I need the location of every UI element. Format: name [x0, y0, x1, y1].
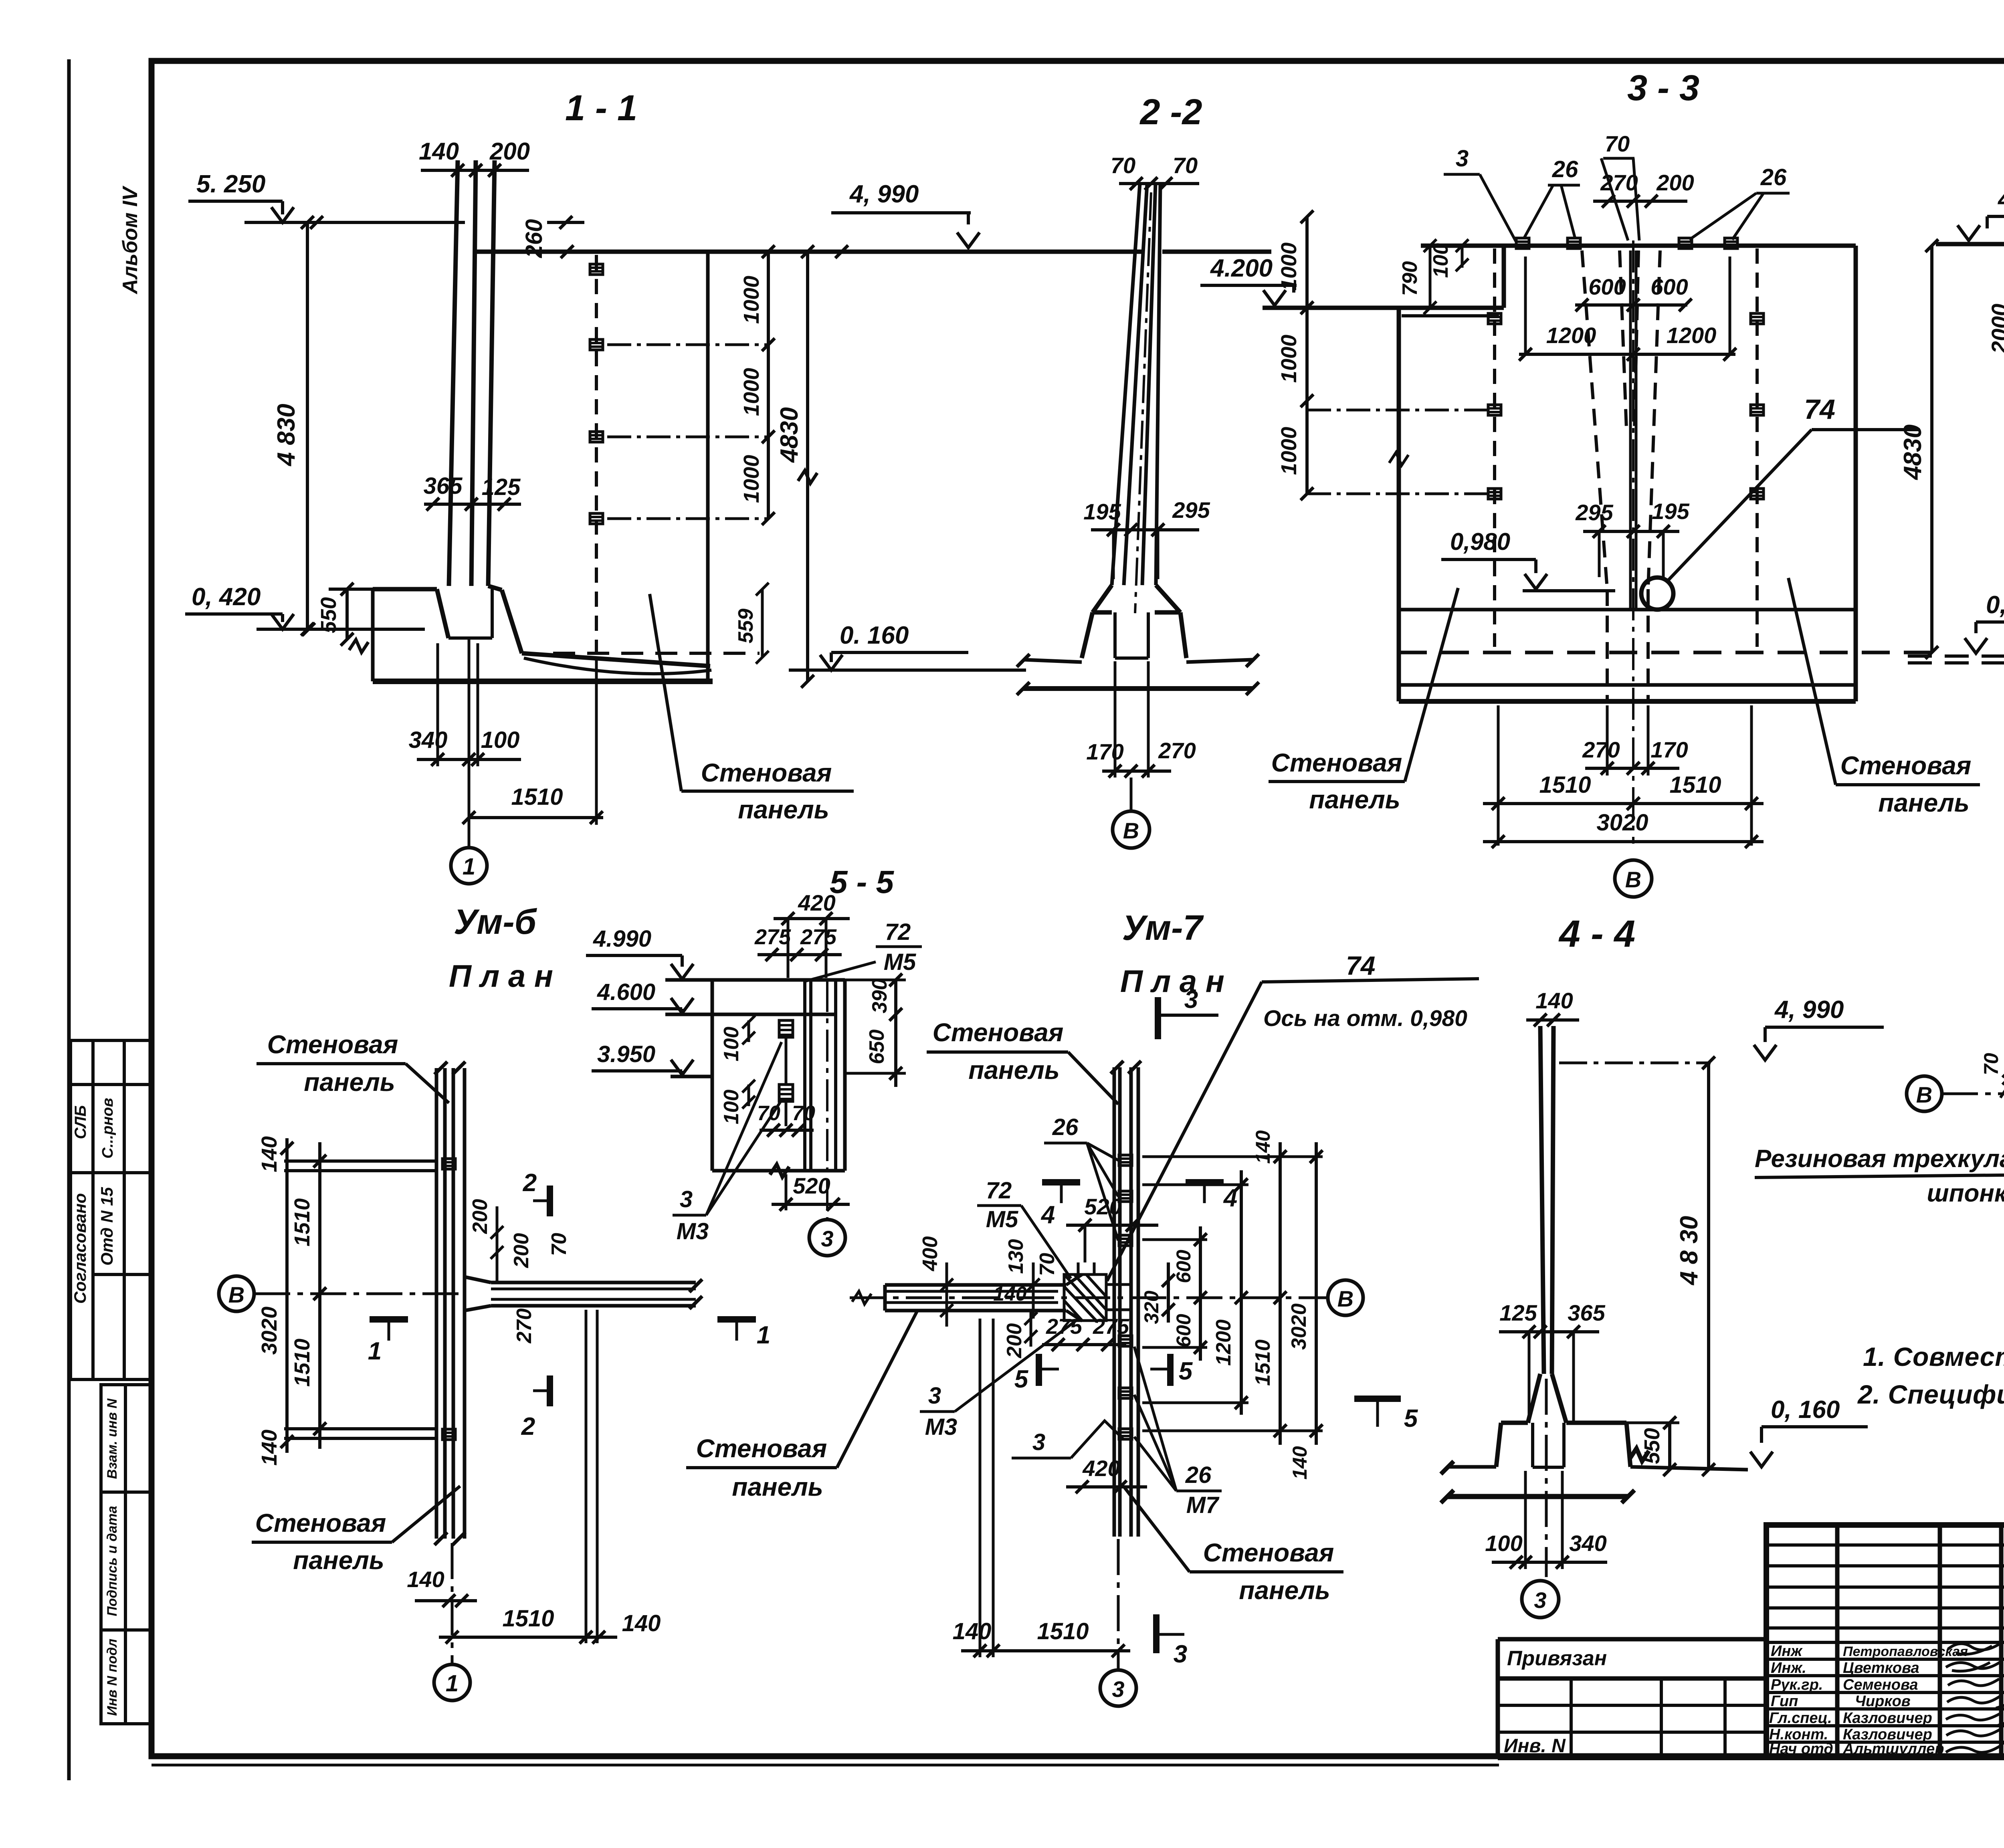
svg-text:600: 600	[1172, 1314, 1195, 1347]
section 1-1 dim 4830 right	[798, 245, 817, 688]
svg-text:2000: 2000	[1987, 304, 2004, 354]
svg-text:Рук.гр.: Рук.гр.	[1771, 1676, 1823, 1693]
svg-text:3.950: 3.950	[597, 1041, 655, 1067]
elevation 0.150	[1965, 622, 2004, 653]
Um-7 panel connector squares above	[1119, 1155, 1132, 1439]
svg-text:панель: панель	[304, 1068, 395, 1097]
svg-text:270: 270	[1600, 170, 1638, 195]
svg-text:Подпись и дата: Подпись и дата	[105, 1506, 120, 1616]
title block outer box	[1766, 1525, 2004, 1757]
svg-text:Резиновая трехкулачковая: Резиновая трехкулачковая	[1755, 1145, 2004, 1173]
4-4 dim 4830	[1702, 1056, 1715, 1476]
Um-7 label Стеновая панель bottom right	[1125, 1488, 1343, 1572]
section 3-3 right panel dashed	[1751, 248, 1764, 647]
Um-6 dim line 3020/140	[281, 1138, 293, 1453]
section 1-1 dim 260	[547, 216, 586, 258]
svg-text:390: 390	[868, 979, 891, 1014]
svg-text:1200: 1200	[1546, 323, 1596, 348]
svg-text:Альбом IV: Альбом IV	[119, 185, 142, 295]
svg-text:панель: панель	[1239, 1576, 1330, 1605]
svg-text:170: 170	[1650, 737, 1688, 762]
svg-text:В: В	[1625, 867, 1641, 892]
svg-text:3: 3	[1456, 145, 1469, 172]
svg-text:0. 160: 0. 160	[840, 622, 909, 649]
Um-6 label Стеновая панель bottom	[252, 1486, 460, 1542]
svg-text:74: 74	[1346, 951, 1375, 980]
Um-6 wall panel vertical (plan)	[434, 1062, 465, 1545]
svg-text:5: 5	[1179, 1357, 1193, 1385]
svg-text:130: 130	[1004, 1239, 1028, 1274]
svg-text:600: 600	[1588, 274, 1626, 299]
svg-text:140: 140	[953, 1618, 992, 1644]
album label rotated	[119, 185, 142, 295]
svg-text:70: 70	[1980, 1053, 2002, 1075]
svg-text:0, 150: 0, 150	[1986, 591, 2004, 619]
svg-text:4830: 4830	[1899, 424, 1927, 481]
svg-text:3: 3	[821, 1226, 833, 1251]
svg-text:1: 1	[446, 1670, 459, 1697]
svg-text:Нач отд: Нач отд	[1769, 1741, 1833, 1757]
section 3-3 left dim column 1000s	[1301, 210, 1493, 500]
Um-6 panel connector squares	[442, 1159, 455, 1169]
svg-text:1510: 1510	[290, 1198, 314, 1246]
svg-text:Инж: Инж	[1771, 1643, 1803, 1660]
svg-text:1510: 1510	[1669, 772, 1721, 798]
svg-text:5 - 5: 5 - 5	[830, 864, 895, 900]
stamp box group 1 (Согласовано)	[71, 1040, 152, 1379]
svg-text:3: 3	[1112, 1676, 1124, 1702]
svg-text:Стеновая: Стеновая	[933, 1018, 1064, 1047]
section 1-1 label Стеновая панель	[650, 594, 854, 791]
svg-text:В: В	[228, 1282, 244, 1307]
title block signature rows	[1766, 1641, 2004, 1644]
svg-text:100: 100	[1485, 1531, 1522, 1556]
svg-text:М3: М3	[677, 1218, 709, 1244]
svg-text:Инв N подл: Инв N подл	[105, 1639, 120, 1716]
svg-text:125: 125	[482, 474, 521, 500]
svg-text:170: 170	[1086, 739, 1123, 764]
Привязан strip	[1498, 1639, 1766, 1757]
svg-text:550: 550	[317, 597, 341, 633]
svg-text:559: 559	[734, 609, 758, 644]
section 3-3 left panel dashed	[1488, 248, 1501, 647]
5-5 elevation 4.600	[592, 998, 693, 1013]
Um-7 label Стеновая панель top	[927, 1052, 1118, 1104]
svg-text:275: 275	[800, 925, 837, 949]
svg-text:70: 70	[547, 1233, 571, 1256]
svg-text:195: 195	[1083, 499, 1121, 524]
5-5 bottom dim 520	[772, 1174, 850, 1211]
section 3-3 node circle 74	[1641, 578, 1673, 610]
label Стеновая панель (right of 3-3)	[1788, 578, 1980, 785]
svg-text:26: 26	[1760, 164, 1787, 190]
label Стеновая панель (below tee, points to Um-7 element)	[686, 1310, 918, 1468]
svg-text:140: 140	[1535, 988, 1573, 1013]
5-5 right dims 390/650	[845, 973, 906, 1087]
svg-text:1200: 1200	[1667, 323, 1717, 348]
svg-text:295: 295	[1172, 497, 1210, 523]
Um-7 junction hatched block	[1064, 1262, 1131, 1321]
svg-text:140: 140	[407, 1567, 444, 1592]
svg-text:140: 140	[993, 1282, 1027, 1305]
stamp box group 2 (Инв N)	[101, 1385, 152, 1724]
Um-6 label Стеновая панель top	[257, 1064, 449, 1103]
Um-6 section marks 2	[533, 1186, 550, 1216]
svg-text:420: 420	[1082, 1456, 1120, 1481]
Um-7 section marks 5	[1039, 1354, 1059, 1386]
svg-text:275: 275	[1046, 1315, 1083, 1339]
svg-text:1. Совместно с данным см. л: 1. Совместно с данным см. л.л. КЖ-16, 32…	[1863, 1342, 2004, 1371]
svg-text:1510: 1510	[1037, 1618, 1089, 1644]
svg-text:295: 295	[1575, 500, 1613, 525]
svg-text:2: 2	[523, 1169, 537, 1197]
svg-text:600: 600	[1172, 1250, 1195, 1283]
svg-text:Стеновая: Стеновая	[255, 1509, 386, 1537]
section 3-3 dim 600/600	[1575, 299, 1692, 311]
svg-text:520: 520	[793, 1173, 830, 1198]
section 3-3 dim 295/195	[1583, 525, 1679, 577]
svg-text:В: В	[1916, 1082, 1932, 1107]
5-5 elevation 4.990	[586, 955, 693, 979]
svg-text:панель: панель	[1878, 788, 1970, 817]
svg-text:5: 5	[1014, 1365, 1029, 1393]
svg-text:панель: панель	[732, 1472, 823, 1501]
title block signature labels	[1769, 1643, 1968, 1757]
svg-text:Стеновая: Стеновая	[1271, 748, 1402, 777]
svg-text:74: 74	[1804, 394, 1835, 425]
Um-7 section mark 3 bottom	[1156, 1614, 1184, 1653]
title block top narrow rows	[1766, 1543, 2004, 1547]
4-4 dim 100/340	[1492, 1471, 1607, 1569]
svg-text:3020: 3020	[257, 1307, 281, 1355]
4-4 elevation 4.990	[1754, 1027, 1884, 1060]
svg-text:140: 140	[1252, 1130, 1274, 1164]
svg-text:140: 140	[257, 1430, 281, 1466]
section 1-1 top dim 140/200	[421, 164, 529, 177]
svg-text:5. 250: 5. 250	[196, 170, 265, 198]
svg-text:1: 1	[463, 854, 475, 880]
svg-text:3: 3	[680, 1186, 693, 1212]
svg-text:340: 340	[1569, 1531, 1606, 1556]
svg-text:270: 270	[1158, 738, 1196, 763]
elevation 4.990 (top of 2-2)	[831, 213, 980, 258]
Um-7 bottom dim 140/1510	[961, 1319, 1130, 1657]
section 2-2 footing slab	[1017, 654, 1259, 695]
svg-text:270: 270	[1582, 737, 1620, 762]
section 3-3 right dim 4830	[1925, 239, 1938, 659]
svg-text:275: 275	[1093, 1315, 1129, 1339]
svg-text:4.990: 4.990	[1997, 186, 2004, 213]
svg-text:1510: 1510	[1251, 1339, 1275, 1386]
elevation 4.200	[1200, 285, 1297, 305]
svg-text:М5: М5	[884, 949, 916, 975]
svg-text:100: 100	[481, 727, 520, 753]
svg-text:М5: М5	[986, 1206, 1018, 1232]
svg-text:1000: 1000	[739, 455, 764, 503]
section 3-3 top connector squares	[1516, 238, 1737, 248]
svg-text:26: 26	[1052, 1114, 1079, 1140]
section 2-2 dim 195/295	[1091, 523, 1199, 579]
svg-text:Цветкова: Цветкова	[1843, 1660, 1919, 1676]
svg-text:панель: панель	[738, 795, 829, 824]
Um-7 right dim stack	[1142, 1157, 1323, 1431]
section 2-2 top dim 70/70	[1119, 177, 1199, 190]
5-5 dim 70/70	[760, 1124, 814, 1137]
svg-text:Стеновая: Стеновая	[696, 1434, 827, 1463]
svg-text:3: 3	[1534, 1587, 1546, 1613]
Um-6 axis B circle	[219, 1276, 254, 1311]
svg-text:Ум-7: Ум-7	[1122, 908, 1204, 947]
section 1-1 panel dashed line with connectors	[590, 255, 603, 657]
section 6-6 wall top line	[1936, 242, 2004, 246]
svg-text:100: 100	[1429, 243, 1452, 278]
section 1-1 wall column	[449, 160, 495, 586]
section 2-2 axis circle В	[1130, 778, 1133, 811]
svg-text:140: 140	[622, 1610, 661, 1636]
svg-text:Взам. инв N: Взам. инв N	[105, 1398, 120, 1479]
svg-text:200: 200	[469, 1199, 492, 1234]
svg-text:0,980: 0,980	[1450, 528, 1510, 555]
section 1-1 dim 559	[756, 583, 769, 664]
title block signatures squiggles	[1946, 1642, 2004, 1752]
svg-text:4: 4	[1040, 1201, 1055, 1229]
section 3-3 monolith column dashed	[1582, 240, 1660, 844]
section 1-1 dim column 1000x3	[607, 245, 775, 525]
5-5 bolts	[779, 1020, 793, 1126]
section 3-3 dim 3020	[1483, 835, 1764, 848]
svg-text:Стеновая: Стеновая	[1840, 751, 1972, 780]
svg-text:3: 3	[1184, 986, 1198, 1014]
svg-text:70: 70	[1111, 153, 1135, 178]
svg-text:Гл.спец.: Гл.спец.	[1769, 1710, 1832, 1727]
svg-text:72: 72	[885, 919, 911, 945]
svg-text:Гип: Гип	[1771, 1693, 1798, 1710]
svg-text:4.200: 4.200	[1210, 254, 1273, 282]
svg-text:П л а н: П л а н	[1120, 963, 1224, 999]
Um-7 axis circle 3	[1117, 1539, 1120, 1669]
Um-7 axis circle B	[1328, 1280, 1363, 1315]
section 2-2 footing pedestal	[1082, 585, 1186, 658]
section 3-3 wall outline	[1263, 246, 1932, 701]
svg-text:5: 5	[1404, 1405, 1418, 1432]
svg-text:В: В	[1337, 1286, 1354, 1311]
Um-7 section marks 4	[1042, 1182, 1080, 1203]
section 2-2 dim 170/270	[1102, 661, 1171, 778]
svg-text:70: 70	[1605, 131, 1630, 156]
svg-text:275: 275	[754, 925, 791, 949]
section 1-1 panel solid edge	[706, 252, 710, 681]
Um-10/11 axis B circle	[1907, 1076, 1942, 1111]
Um-6 dim line 1510/1510	[313, 1142, 326, 1449]
svg-text:1200: 1200	[1212, 1319, 1235, 1366]
section 1-1 axis circle 1	[451, 848, 487, 884]
svg-text:125: 125	[1499, 1300, 1537, 1325]
section 1-1 wall top line	[473, 250, 1141, 254]
Um-6 cross wall stubs	[284, 1161, 436, 1438]
svg-text:2: 2	[521, 1413, 535, 1440]
5-5 elevation 3.950	[592, 1060, 693, 1075]
svg-text:Семенова: Семенова	[1843, 1676, 1918, 1693]
svg-text:3 - 3: 3 - 3	[1627, 68, 1699, 108]
svg-text:3: 3	[928, 1383, 941, 1409]
svg-text:100: 100	[720, 1090, 743, 1125]
section 1-1 dim 1510	[463, 660, 603, 825]
svg-text:72: 72	[986, 1177, 1012, 1204]
svg-text:195: 195	[1652, 499, 1689, 524]
svg-text:365: 365	[424, 473, 463, 499]
svg-text:70: 70	[792, 1102, 815, 1125]
Um-6 axis circle 1	[451, 1543, 454, 1664]
svg-text:0, 420: 0, 420	[192, 583, 261, 611]
svg-text:320: 320	[1140, 1291, 1163, 1324]
svg-text:4, 990: 4, 990	[1774, 996, 1844, 1024]
svg-text:4: 4	[1223, 1184, 1237, 1212]
section 1-1 dim 550	[329, 583, 373, 646]
svg-text:Согласовано: Согласовано	[71, 1193, 89, 1304]
svg-text:М7: М7	[1186, 1492, 1220, 1518]
elevation 0.980	[1441, 559, 1615, 591]
svg-text:Альтшуллер: Альтшуллер	[1842, 1741, 1944, 1757]
svg-text:2. Спецификация элементов см: 2. Спецификация элементов см. л.КЖ- 27.	[1857, 1379, 2004, 1409]
svg-text:Инв. N: Инв. N	[1504, 1735, 1566, 1757]
svg-text:Инж.: Инж.	[1771, 1660, 1806, 1676]
svg-text:Привязан: Привязан	[1507, 1647, 1607, 1670]
section 3-3 axis circle В	[1615, 860, 1652, 897]
4-4 elevation 0.160	[1750, 1427, 1868, 1467]
svg-text:Ось на отм. 0,980: Ось на отм. 0,980	[1263, 1006, 1467, 1031]
svg-text:1 - 1: 1 - 1	[565, 88, 637, 128]
4-4 footing	[1441, 1374, 1748, 1503]
section 2-2 tapering wall column	[1112, 184, 1160, 613]
svg-text:26: 26	[1185, 1462, 1212, 1488]
svg-text:70: 70	[1173, 153, 1198, 178]
svg-text:С...рнов: С...рнов	[99, 1098, 116, 1158]
svg-text:365: 365	[1568, 1300, 1605, 1325]
svg-text:4.600: 4.600	[597, 979, 655, 1005]
svg-text:650: 650	[865, 1030, 889, 1064]
section 2-2 wall top line right stub	[1162, 250, 1271, 254]
stamp group2 rotated texts	[105, 1398, 120, 1716]
section 3-3 axis line 1 with break	[1389, 353, 1408, 465]
Um-7 dim 520	[1066, 1219, 1158, 1262]
5-5 block outline	[665, 980, 845, 1177]
svg-text:1510: 1510	[502, 1606, 554, 1632]
svg-text:СЛБ: СЛБ	[72, 1105, 89, 1139]
svg-text:4 8 30: 4 8 30	[1675, 1216, 1703, 1286]
svg-text:шпонка: шпонка	[1927, 1179, 2004, 1207]
svg-text:200: 200	[1656, 170, 1694, 195]
svg-text:1000: 1000	[1277, 242, 1301, 291]
svg-text:270: 270	[513, 1309, 536, 1344]
title block signature columns	[1835, 1525, 1840, 1757]
svg-text:400: 400	[919, 1236, 942, 1272]
section 1-1 elevation 5.250	[188, 201, 465, 229]
section 3-3 dim 1510/1510	[1483, 705, 1764, 846]
label Стеновая панель (left of 3-3)	[1269, 588, 1458, 782]
svg-text:панель: панель	[293, 1546, 384, 1575]
svg-text:3: 3	[1032, 1429, 1045, 1455]
svg-text:200: 200	[489, 138, 530, 165]
Um-7 vertical wall panel	[1111, 1061, 1141, 1537]
section 3-3 bottom dim 270/170	[1585, 705, 1679, 776]
svg-text:4 - 4: 4 - 4	[1558, 913, 1635, 955]
svg-text:420: 420	[798, 890, 835, 915]
svg-text:Стеновая: Стеновая	[1203, 1538, 1334, 1567]
elevation 0.160	[789, 652, 1026, 670]
svg-text:520: 520	[1084, 1194, 1121, 1219]
svg-text:4830: 4830	[776, 407, 803, 463]
stamp group1 rotated texts	[71, 1098, 116, 1304]
svg-text:Стеновая: Стеновая	[701, 758, 832, 787]
svg-text:1: 1	[757, 1321, 770, 1349]
Um-7 section mark 3 top	[1158, 997, 1218, 1039]
svg-text:140: 140	[257, 1136, 281, 1172]
svg-text:1000: 1000	[1277, 335, 1301, 383]
svg-text:1: 1	[368, 1337, 382, 1365]
svg-text:4.990: 4.990	[593, 926, 651, 952]
elevation 4.990 (6-6)	[1958, 216, 2004, 240]
section 1-1 dim 340/100	[417, 638, 521, 847]
svg-text:1000: 1000	[739, 368, 764, 416]
svg-text:200: 200	[510, 1233, 533, 1268]
4-4 dim 550	[1626, 1416, 1679, 1476]
5-5 inner vertical lines	[805, 980, 836, 1218]
svg-text:1510: 1510	[290, 1339, 314, 1387]
svg-text:В: В	[1123, 818, 1139, 843]
svg-text:П л а н: П л а н	[449, 958, 553, 994]
4-4 axis circle 3	[1545, 1379, 1548, 1577]
svg-text:1510: 1510	[1539, 772, 1591, 798]
4-4 section mark 5	[1354, 1399, 1401, 1427]
4-4 dim 125/365	[1499, 1325, 1599, 1423]
svg-text:Петропавловская: Петропавловская	[1843, 1644, 1968, 1659]
svg-text:3020: 3020	[1287, 1303, 1311, 1350]
section 6-6 floor slab	[1908, 614, 2004, 707]
5-5 dim 275/275	[758, 948, 842, 961]
svg-text:26: 26	[1552, 156, 1578, 182]
svg-text:1510: 1510	[511, 784, 563, 810]
outer left paper line	[67, 59, 71, 1780]
Um-7 axis line to B	[850, 1297, 1328, 1299]
4-4 dashdot top tie	[1559, 1062, 1711, 1064]
section 1-1 dim 4830 left	[301, 216, 314, 636]
svg-text:2 -2: 2 -2	[1139, 92, 1202, 132]
Um-6 section marks 1	[370, 1319, 408, 1341]
svg-text:панель: панель	[968, 1056, 1060, 1085]
Um-6 tee element to right	[465, 1277, 702, 1311]
svg-text:Отд N 15: Отд N 15	[97, 1187, 116, 1265]
section 1-1 dim 365/125	[424, 498, 521, 511]
svg-text:200: 200	[1003, 1323, 1026, 1359]
Um-7 horizontal element	[885, 1274, 1082, 1321]
svg-text:100: 100	[720, 1027, 743, 1062]
svg-text:790: 790	[1398, 261, 1422, 296]
svg-text:140: 140	[419, 138, 459, 165]
svg-text:340: 340	[409, 727, 448, 753]
svg-text:1000: 1000	[739, 276, 764, 324]
svg-text:Ум-б: Ум-б	[454, 902, 537, 941]
5-5 top dim 420	[774, 912, 850, 978]
svg-text:панель: панель	[1309, 785, 1400, 814]
4-4 column	[1540, 1026, 1554, 1374]
svg-text:М3: М3	[925, 1414, 958, 1440]
svg-text:600: 600	[1650, 274, 1688, 299]
Um-7 dim 420 bottom	[1066, 1480, 1147, 1493]
5-5 axis circle 3	[809, 1220, 845, 1256]
svg-text:4, 990: 4, 990	[849, 180, 919, 208]
svg-text:0, 160: 0, 160	[1771, 1396, 1840, 1424]
svg-text:Чирков: Чирков	[1855, 1693, 1911, 1710]
